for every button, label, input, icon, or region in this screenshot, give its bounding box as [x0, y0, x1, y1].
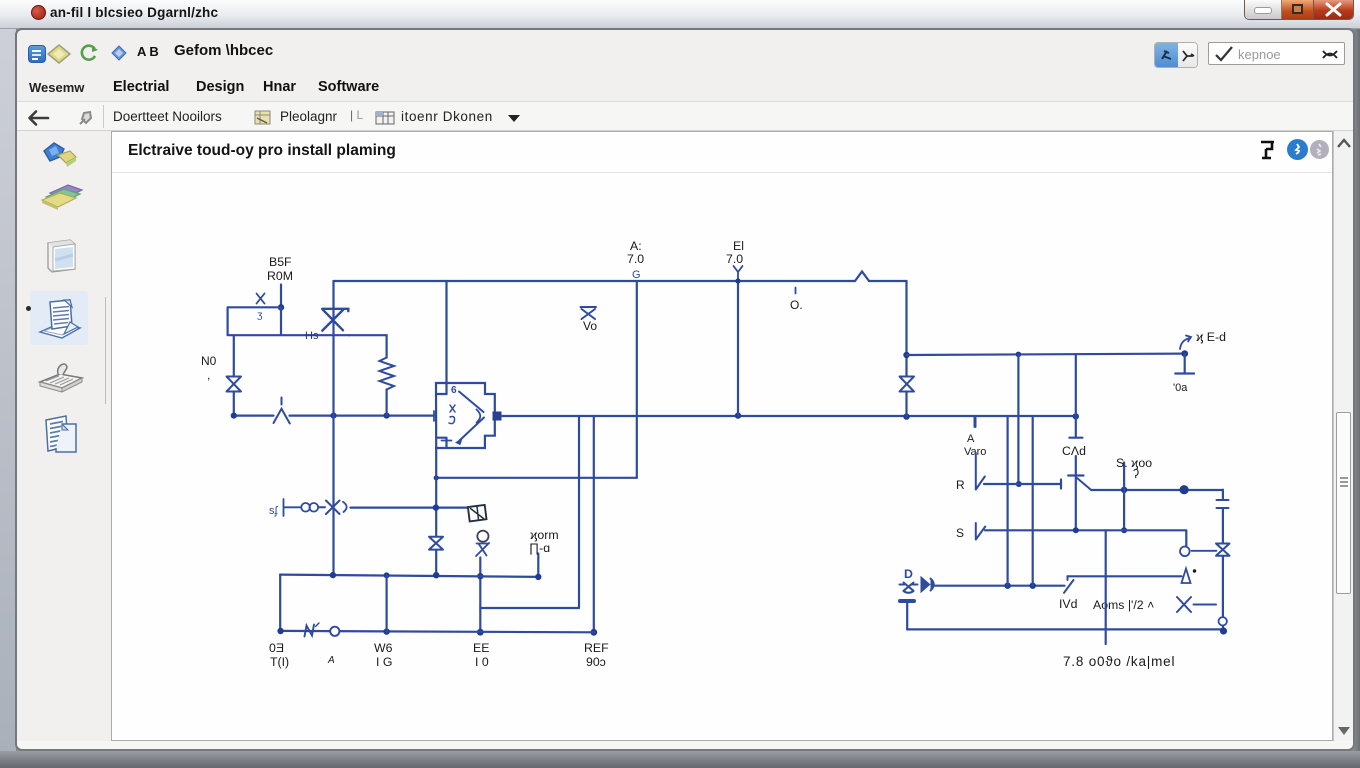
toolbar row 2	[17, 102, 1353, 131]
junction dots row490	[1121, 485, 1189, 494]
glyph 3 below	[257, 310, 263, 321]
contact R	[976, 417, 985, 490]
wire left C bend	[279, 575, 281, 631]
svg-text:ʒ: ʒ	[257, 310, 263, 321]
svg-text:G: G	[632, 269, 641, 281]
canvas panel	[111, 131, 1333, 741]
svg-text:O.: O.	[790, 298, 803, 312]
svg-text:ʔ: ʔ	[1133, 467, 1139, 481]
op-amp output blob	[493, 412, 502, 421]
toolbar row 1 icons	[28, 45, 46, 63]
scrollbar	[1333, 131, 1353, 741]
contact S	[976, 523, 986, 540]
wire bottom bus right of op-amp	[501, 415, 1076, 417]
switch chain X	[319, 501, 340, 515]
svg-text:El: El	[733, 239, 744, 253]
label N0	[201, 354, 217, 382]
relay box N	[468, 505, 487, 522]
wire top bus	[334, 280, 907, 282]
svg-text:7.8 o0ϑo /ka|mel: 7.8 o0ϑo /ka|mel	[1063, 654, 1175, 669]
wire row 484	[984, 480, 1061, 489]
switch chain bar	[284, 499, 301, 516]
lamp O circle	[1180, 547, 1190, 557]
op-amp apex arc	[477, 410, 481, 423]
svg-text:R: R	[956, 478, 965, 492]
wire lamp stem	[479, 558, 481, 633]
svg-text:CΛd: CΛd	[1062, 444, 1086, 458]
label O.	[790, 298, 803, 312]
icon 6: document pair	[42, 412, 80, 456]
terminal 0a	[1175, 354, 1194, 374]
wire row 586	[934, 585, 1065, 587]
junction dot at stub	[278, 304, 284, 310]
label Xt E-d	[1196, 330, 1226, 344]
app icon	[31, 5, 46, 20]
label 0a	[1173, 382, 1188, 394]
window title	[50, 5, 218, 20]
stub S goo	[1123, 463, 1125, 490]
wire row 490	[1091, 489, 1223, 491]
plate bar under D	[900, 599, 914, 603]
label R	[956, 478, 965, 492]
capacitor C1 branch	[1068, 354, 1083, 530]
label El 7.0	[726, 239, 744, 266]
junction dots lamp stem	[477, 573, 484, 636]
search box	[1208, 42, 1345, 65]
label EE I0	[473, 641, 489, 669]
desktop right sliver	[1353, 28, 1360, 751]
indicator circle right col	[1219, 617, 1227, 625]
wire vert 1105	[1105, 530, 1107, 644]
resistor R1 zigzag	[380, 358, 395, 390]
toolbar row1 right buttons	[1154, 42, 1198, 68]
desktop bottom strip	[0, 751, 1360, 768]
svg-text:A: A	[967, 433, 975, 445]
label B5F R0M	[267, 255, 293, 283]
capacitor C2 plates	[1217, 500, 1229, 508]
label 0a T0	[269, 641, 289, 669]
svg-text:B5F: B5F	[269, 255, 292, 269]
svg-text:7.0: 7.0	[627, 252, 644, 266]
svg-text:W6: W6	[374, 641, 393, 655]
valve V3 hourglass	[900, 377, 915, 392]
junction dot row530	[1073, 527, 1079, 533]
svg-text:ϗ E-d: ϗ E-d	[1196, 330, 1226, 344]
lamp 0K marks	[476, 543, 489, 556]
wire row 508	[351, 507, 468, 509]
spike symbol on bus	[274, 398, 290, 424]
junction dot mid right	[903, 352, 909, 358]
svg-text:ϗorm: ϗorm	[530, 528, 559, 542]
svg-text:6: 6	[451, 385, 457, 396]
junction dots row586	[1004, 583, 1036, 589]
label A Varo	[964, 433, 986, 458]
junction dots bus mid	[735, 412, 1079, 419]
valve V4 hourglass	[1216, 544, 1230, 556]
junction dots row575	[330, 572, 542, 580]
wire row 477	[436, 477, 637, 479]
wire right corner vertical	[905, 281, 907, 417]
wire vert pair mid-right	[1008, 417, 1033, 586]
wire bottom bus left	[234, 415, 434, 417]
switch chain circles	[301, 503, 310, 512]
wire D branch to bottom	[906, 601, 908, 630]
icon 3: white box	[44, 235, 80, 275]
wire row 576	[1068, 575, 1182, 577]
op-amp pin 6 label	[451, 385, 457, 396]
junction dots row354	[1016, 350, 1188, 357]
diode D1	[922, 578, 934, 591]
spike in top bus	[855, 272, 869, 282]
label A small	[327, 655, 335, 666]
svg-text:'0a: '0a	[1173, 382, 1188, 394]
svg-text:90ɔ: 90ɔ	[586, 655, 606, 669]
label W6 I G	[374, 641, 393, 669]
junction dot end 1018	[1016, 481, 1022, 487]
wire bottom row right	[907, 628, 1223, 630]
wire feedback rectangle	[228, 307, 349, 335]
valve V1 hourglass	[227, 377, 242, 392]
label 7.8 line	[1063, 654, 1175, 669]
icon 2: layer stack	[38, 181, 86, 211]
lamp N-O	[305, 623, 340, 637]
junction dot bottom right	[1220, 627, 1227, 634]
svg-text:7.0: 7.0	[726, 252, 743, 266]
circuit schematic	[112, 173, 1333, 740]
label A: 7.0 G	[627, 239, 644, 266]
node G glyph	[632, 269, 641, 281]
op-amp input marks	[449, 405, 455, 424]
svg-text:N0: N0	[201, 354, 217, 368]
breaker D symbol	[900, 583, 918, 593]
wire vert 386 low	[386, 575, 388, 631]
wire left branch down	[233, 335, 235, 415]
node REF stub B5F/R0M	[280, 285, 282, 308]
svg-text:sʄ: sʄ	[269, 505, 279, 517]
icon 5: stamp pad	[36, 356, 86, 396]
junction dot 1124 low	[1121, 527, 1127, 533]
junction dot El top	[735, 278, 740, 283]
svg-text:∏-ɑ: ∏-ɑ	[529, 541, 550, 555]
menu row	[29, 80, 84, 95]
svg-text:I G: I G	[376, 655, 392, 669]
label IVd	[1059, 597, 1078, 611]
op-amp U1 outline	[436, 383, 495, 448]
window buttons	[1244, 0, 1354, 20]
tick at op-amp input	[434, 411, 452, 441]
valve V2 floating	[581, 307, 597, 319]
junction dot row508	[433, 504, 439, 510]
wire vertical main left	[332, 281, 334, 575]
svg-text:EE: EE	[473, 641, 489, 655]
icon 1: 3d shapes	[40, 141, 80, 169]
selected icon highlight	[30, 291, 88, 345]
svg-text:REF: REF	[584, 641, 609, 655]
svg-text:I 0: I 0	[475, 655, 489, 669]
op-amp U1 inner triangle	[459, 392, 484, 441]
svg-text:A:: A:	[630, 239, 642, 253]
svg-text:R0M: R0M	[267, 269, 293, 283]
wire dash to valve	[1192, 550, 1217, 552]
wire cap pair left	[480, 416, 594, 632]
transistor Q1 blade	[1064, 576, 1074, 593]
label S	[956, 526, 964, 540]
svg-text:,: ,	[207, 368, 210, 382]
wire op-amp top pin	[445, 281, 447, 394]
svg-text:Hs: Hs	[305, 330, 319, 342]
svg-text:A: A	[327, 655, 335, 666]
wire node El vertical	[737, 281, 739, 416]
wire resistor to bus	[386, 390, 388, 416]
title bar	[0, 0, 1360, 29]
label sf	[269, 505, 279, 517]
op-amp arrowhead	[456, 439, 462, 445]
svg-text:IVd: IVd	[1059, 597, 1078, 611]
wire bottom row left	[280, 631, 594, 632]
svg-text:Aoms |'/2 ˄: Aoms |'/2 ˄	[1093, 598, 1154, 612]
triangle dot	[1193, 569, 1196, 572]
breaker X1 big	[322, 309, 348, 331]
antenna E-d arrow	[1180, 336, 1191, 350]
triangle device	[1182, 569, 1191, 584]
wire row 575	[280, 554, 538, 577]
label REF 90	[584, 641, 609, 669]
svg-text:Vo: Vo	[583, 319, 597, 333]
label Hs	[305, 330, 319, 342]
title row right icons	[1258, 139, 1280, 163]
contact X2	[1177, 597, 1216, 612]
wire op-amp lower vertical	[435, 448, 437, 575]
wire node A vertical	[636, 281, 638, 478]
junction dots bus left	[231, 413, 390, 419]
wire vert 1018	[1017, 354, 1019, 484]
wire row 530	[985, 530, 1186, 546]
label Vo	[583, 319, 597, 333]
junction dot 477	[434, 475, 439, 480]
junction dots bottom row	[277, 628, 389, 635]
icon 4: document stack (selected)	[34, 294, 86, 344]
wire right column	[1222, 490, 1224, 631]
contact X small on wire	[257, 294, 265, 304]
switch blade C1	[1077, 478, 1091, 490]
wire row 354	[907, 354, 1185, 355]
valve V5 hourglass	[429, 537, 443, 550]
node O. tick	[795, 288, 797, 294]
wire Hs to resistor	[349, 335, 387, 357]
label CAd	[1062, 444, 1086, 458]
stub node A Varo	[973, 417, 975, 428]
label D	[904, 567, 913, 581]
label S goo	[1116, 456, 1152, 481]
label Xorm T-a	[529, 528, 559, 555]
wire link 1124 down	[1123, 490, 1125, 531]
node Y glyph	[734, 266, 743, 281]
junction dot 594 bottom	[590, 629, 597, 636]
desktop left strip	[0, 28, 16, 751]
lamp 0K	[477, 531, 488, 542]
svg-text:S: S	[956, 526, 964, 540]
svg-text:0Ǝ: 0Ǝ	[269, 641, 284, 655]
switch chain c glyph	[343, 502, 347, 512]
svg-text:T(I): T(I)	[270, 655, 289, 669]
label Aoms	[1093, 598, 1154, 612]
svg-text:D: D	[904, 567, 913, 581]
